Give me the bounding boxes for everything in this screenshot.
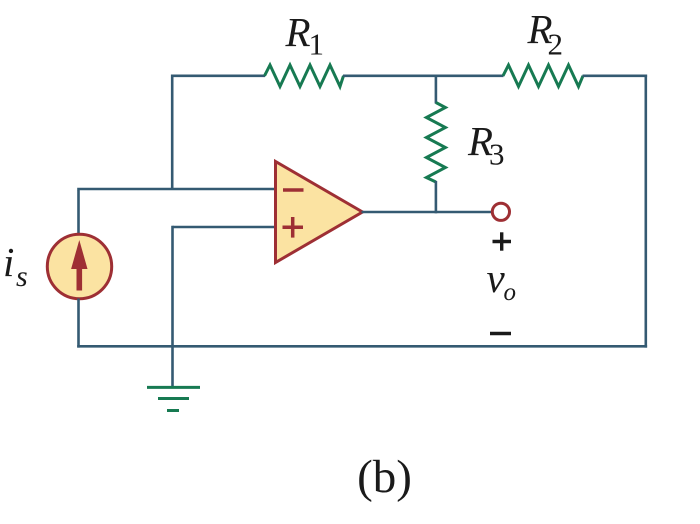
svg-text:s: s — [16, 260, 28, 293]
resistor R1 — [265, 65, 344, 87]
svg-text:(b): (b) — [357, 451, 412, 503]
svg-text:R: R — [285, 9, 311, 55]
wire inverting input horizontal — [77, 188, 276, 191]
wire top-left segment (feedback corner to R1) — [172, 76, 265, 190]
svg-text:o: o — [504, 279, 517, 306]
wire top-middle segment (R1 to R2 through R3 tap) — [343, 75, 504, 78]
resistor R3 — [426, 103, 445, 183]
wire right rail (output feedback rail) — [644, 75, 647, 348]
svg-text:i: i — [3, 239, 14, 285]
wire ground branch vertical — [171, 226, 174, 388]
op-amp non-inverting input mark (plus) — [283, 217, 304, 238]
resistor R2 — [503, 65, 583, 87]
output terminal node vo — [492, 203, 509, 220]
svg-text:3: 3 — [489, 137, 505, 172]
ground — [147, 387, 200, 410]
op-amp U1 — [276, 162, 363, 263]
wire top-right segment (R2 to output rail) — [583, 75, 648, 78]
wire R3 bottom stub to output node — [435, 181, 438, 213]
wire R3 top stub — [435, 76, 438, 104]
label minus polarity of vo — [490, 332, 511, 335]
wire bottom rail — [77, 345, 647, 348]
current source is — [47, 234, 111, 298]
svg-text:1: 1 — [309, 27, 325, 62]
wire op-amp output — [362, 211, 493, 214]
wire inverting branch vertical (node to current source) — [77, 190, 80, 234]
label plus polarity of vo — [493, 232, 512, 250]
svg-text:2: 2 — [548, 27, 564, 62]
op-amp inverting input mark (minus) — [283, 188, 304, 192]
wire current source bottom stub — [77, 299, 80, 348]
wire non-inverting input horizontal — [173, 226, 276, 229]
